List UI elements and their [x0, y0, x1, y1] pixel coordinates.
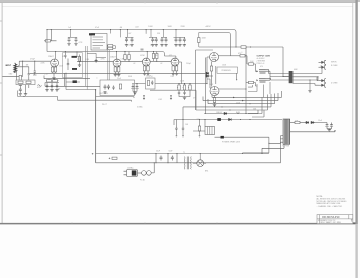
label plus mark — [92, 153, 94, 155]
node rail-R junctions — [46, 29, 51, 41]
wire relay left — [193, 120, 205, 132]
capacitor C fx1 — [104, 85, 107, 90]
transformer T1 mains winding a — [183, 157, 186, 170]
svg-text:.02: .02 — [133, 63, 135, 65]
wire heater out top — [290, 122, 295, 124]
titleblock divider v — [320, 215, 349, 224]
VALUE LABELS — [26, 26, 322, 143]
wire drop x146.1 — [146, 30, 157, 38]
wire corner to T2 — [269, 137, 281, 153]
svg-text:250pF: 250pF — [186, 63, 191, 65]
svg-text:62: 62 — [62, 56, 64, 58]
capacitor C fx2 — [107, 85, 110, 90]
svg-text:22uF: 22uF — [129, 45, 133, 47]
wire drop x110.5 top — [110, 30, 112, 34]
diode feed arrow b — [206, 75, 209, 78]
diode feed arrow a — [206, 72, 209, 75]
capacitor C3b — [130, 38, 133, 47]
divider psu 3 — [176, 154, 178, 163]
ground V1 — [52, 77, 55, 80]
resistor R in midbox — [147, 81, 149, 86]
wire V2 plate — [116, 52, 118, 60]
capacitor C tone1 — [178, 89, 180, 92]
border frame right line — [352, 3, 354, 224]
ground fx — [103, 91, 106, 94]
wire drop x70.6 — [68, 30, 77, 38]
transformer T1 core lines — [187, 157, 188, 170]
node psu dots — [156, 153, 178, 163]
potentiometer low — [178, 84, 180, 85]
diode D6 — [311, 121, 314, 124]
POWER TRANSFORMER T2 — [261, 119, 335, 154]
LEFT HEATER BUSES — [16, 80, 172, 102]
titleblock outline — [317, 215, 353, 224]
svg-text:PRESENCE: PRESENCE — [222, 70, 232, 72]
svg-text:.1: .1 — [96, 78, 97, 80]
diode D3 — [229, 118, 232, 121]
wire V1 plate — [55, 52, 57, 59]
box relay K1 — [205, 127, 215, 135]
plug blades dark — [132, 170, 137, 175]
ground V3a — [145, 71, 148, 73]
transformer T1 output dark core — [289, 71, 293, 83]
wire heater return — [290, 130, 335, 132]
capacitor C5b — [164, 38, 167, 47]
resistor R grid stopper1 — [249, 63, 254, 65]
node fx — [108, 88, 109, 89]
resistor R 1M — [16, 71, 18, 77]
potentiometer high — [189, 84, 191, 85]
capacitor C heater1 — [326, 123, 329, 128]
svg-text:.02: .02 — [160, 63, 162, 65]
resistor R row b — [53, 80, 58, 82]
BIAS / SWITCHING CLUSTER — [174, 97, 282, 154]
resistor R cathode V3a1 — [145, 64, 148, 67]
svg-text:820: 820 — [177, 45, 180, 47]
wire heater bus A — [18, 96, 132, 101]
capacitor C bias2 — [182, 120, 184, 127]
wire plug cord — [138, 172, 142, 174]
wire x28.8 — [17, 67, 29, 88]
ground PI — [214, 103, 216, 104]
resistor R cathode V1b — [54, 67, 56, 72]
wire led — [66, 81, 80, 83]
border frame top line — [0, 2, 356, 4]
svg-text:100K: 100K — [168, 26, 173, 28]
node mains riser — [95, 89, 96, 90]
ground heater l3 — [55, 89, 58, 92]
wire preamp bus long — [30, 72, 206, 74]
ground V3b1 — [173, 71, 176, 73]
resistor R cathode V3a2 — [147, 66, 149, 71]
V2 STAGE — [113, 51, 142, 76]
svg-text:500pF: 500pF — [146, 76, 151, 78]
connector J5 speaker 8ohm b — [319, 65, 327, 69]
svg-text:POWER XFMR 120V: POWER XFMR 120V — [222, 142, 241, 144]
resistor R row l2 — [26, 81, 31, 83]
wire plate V5 — [266, 69, 290, 73]
wire lattice 3 — [208, 94, 275, 104]
wire psu rect top — [96, 153, 269, 155]
wire lattice 4 — [183, 94, 271, 107]
wire V3b plate — [165, 56, 176, 58]
switch SW1 power — [147, 171, 152, 176]
svg-text:100K: 100K — [148, 26, 153, 28]
wire drop x120.3 — [119, 30, 121, 38]
svg-text:PILOT: PILOT — [102, 104, 107, 106]
wire cathode bottom — [17, 76, 26, 87]
INPUT SECTION — [2, 61, 51, 96]
wire lattice 7 — [252, 110, 264, 117]
wire lattice 6 — [248, 110, 258, 114]
wire heater feed left b — [66, 89, 96, 91]
wire psu rect bottom — [96, 142, 281, 163]
resistor R cathode V1a — [51, 67, 53, 72]
capacitor C heater l3 — [56, 83, 58, 85]
POWER TUBES / OT — [248, 47, 322, 97]
wire PI cathode chain — [211, 62, 213, 87]
POWER SUPPLY CHAIN — [45, 86, 281, 169]
ground tone — [179, 90, 190, 97]
resistor R input bold — [14, 68, 17, 73]
svg-text:BR1: BR1 — [205, 171, 208, 173]
node PI — [235, 46, 251, 89]
capacitor C3a — [125, 38, 128, 47]
NOTES TEXT SMALL — [257, 55, 270, 65]
NOTES BLOCK — [317, 196, 348, 208]
resistor R plate PI — [199, 33, 210, 48]
wire tone bus — [135, 83, 208, 85]
wire switch bus pair right — [108, 50, 109, 80]
wire V1 cathode legs — [53, 65, 56, 68]
resistor R cathode V2b — [118, 67, 120, 72]
HEATER/ROUTING LATTICE — [150, 50, 282, 120]
node box1 tap junction — [95, 59, 98, 62]
svg-text:LOW: LOW — [158, 99, 162, 101]
wire cathode to row — [53, 72, 56, 77]
capacitor C psu1 — [160, 156, 163, 161]
resistor R grid1 — [231, 55, 241, 57]
squiggle AC symbol — [38, 85, 42, 87]
wire loop rect gain — [63, 53, 83, 78]
transformer T2 body — [283, 119, 290, 144]
fuse F2 — [295, 121, 300, 123]
resistor Rb — [108, 47, 113, 49]
wire rail left drop R — [44, 30, 57, 52]
resistor R coupling pair — [125, 52, 129, 55]
resistor Ra — [108, 45, 113, 47]
svg-text:25uF: 25uF — [117, 78, 121, 80]
wire bias line1 — [205, 97, 262, 113]
svg-text:□ CHANNEL ONE □ CHAN TWO: □ CHANNEL ONE □ CHAN TWO — [317, 205, 343, 208]
svg-text:INPUT: INPUT — [5, 65, 12, 67]
wire screen bus — [267, 71, 290, 80]
svg-text:+485V: +485V — [205, 26, 211, 28]
svg-text:12AX7: 12AX7 — [48, 55, 54, 58]
svg-text:15uF: 15uF — [318, 120, 322, 122]
capacitor C5a — [160, 38, 163, 47]
resistor R psu small — [112, 157, 117, 159]
resistor R PI tail — [210, 66, 212, 71]
svg-text:.022: .022 — [168, 55, 172, 57]
wire feedback vertical — [245, 47, 247, 114]
wire inner B+ loop — [199, 33, 231, 56]
resistor R on y47 — [241, 46, 246, 48]
ground input b — [25, 83, 27, 93]
tube V6 6L6 bars — [257, 78, 267, 82]
connector J5 speaker 8ohm a — [319, 60, 327, 64]
titleblock divider h — [317, 218, 353, 220]
svg-text:120VAC: 120VAC — [127, 167, 134, 170]
svg-text:PINS 1+8: PINS 1+8 — [257, 63, 265, 65]
ground heater — [327, 127, 332, 130]
border frame left line — [1, 3, 3, 224]
border frame faint inner top line — [2, 6, 353, 8]
wire drop x163.3 — [161, 30, 167, 38]
transformer T2 left pins — [281, 136, 284, 144]
V3b STAGE — [165, 56, 182, 84]
diode D2 dark — [217, 118, 221, 121]
wire lattice 5 — [196, 95, 268, 111]
svg-text:REV C SHEET 1 OF 1 DWG: REV C SHEET 1 OF 1 DWG — [321, 222, 342, 224]
capacitor C4b — [155, 38, 158, 47]
resistor R cathode V3b1 — [173, 64, 176, 67]
svg-text:1N4007: 1N4007 — [216, 112, 222, 114]
resistor R cathode V3b2 — [175, 66, 177, 71]
wire B+ center tap — [283, 47, 289, 77]
svg-text:60W: 60W — [294, 69, 298, 71]
svg-text:2.2M: 2.2M — [85, 59, 89, 61]
node lattice dots — [221, 103, 250, 110]
diode lattice mark b — [242, 100, 244, 102]
resistor R inter pair — [154, 52, 157, 54]
box presence network — [217, 67, 238, 73]
wire bottom row y78.7 — [44, 76, 90, 79]
wire heater mid — [300, 122, 306, 124]
connector J1 input jack — [14, 61, 19, 70]
ground V2a — [114, 72, 116, 74]
resistor dropping — [46, 40, 51, 42]
wire box pins — [107, 46, 116, 49]
wire lattice left drops — [183, 95, 212, 120]
diode D1 — [224, 112, 227, 115]
svg-text:470: 470 — [260, 66, 263, 68]
resistor R PI tail2 — [214, 96, 216, 98]
capacitor C gain — [67, 62, 69, 66]
box U-footswitch legend — [86, 29, 116, 89]
svg-text:.022: .022 — [135, 27, 139, 29]
capacitor C tone2 — [184, 89, 186, 92]
wire loop top a — [196, 49, 214, 51]
svg-text:SCHEMATIC 5150 212: SCHEMATIC 5150 212 — [318, 219, 335, 222]
PHASE INVERTER — [206, 46, 284, 114]
capacitor C 28 — [28, 74, 30, 77]
wire drop from mid rail x77 — [76, 52, 78, 57]
wire to caps — [314, 122, 327, 125]
wire grid V1 — [19, 60, 51, 62]
svg-text:NOTE:: NOTE: — [317, 196, 324, 198]
TITLE BLOCK — [317, 215, 353, 225]
capacitor C above rail — [141, 49, 144, 50]
wire loop vertical left a — [195, 50, 197, 110]
node rail junction dots — [70, 29, 177, 30]
capacitor C heater l2 — [51, 83, 53, 85]
TONE STACK — [132, 78, 208, 99]
capacitor C heater2 — [331, 122, 333, 125]
svg-text:470pF: 470pF — [30, 59, 35, 61]
divider psu 1 — [155, 154, 157, 163]
svg-text:47uF: 47uF — [95, 27, 99, 29]
ground heater l1 — [45, 89, 48, 92]
resistor R bias — [199, 120, 201, 127]
transformer T1 mains winding b — [190, 157, 193, 170]
potentiometer mid — [184, 84, 186, 85]
wire drop x180 — [174, 30, 186, 38]
capacitor C4a — [151, 38, 154, 47]
capacitor C6a — [174, 38, 177, 47]
wire mid rail — [47, 52, 165, 57]
svg-text:6.3VAC: 6.3VAC — [137, 106, 143, 109]
capacitor C in midbox — [151, 81, 153, 85]
wire resistor row left box — [16, 80, 35, 85]
label GAIN dark — [72, 56, 77, 58]
wire V3a plate — [146, 52, 148, 59]
GAIN / STAGE2 COUPLING — [63, 52, 114, 78]
diode LED dark — [73, 80, 77, 83]
wire heater cross — [150, 90, 196, 110]
wire switch bus pair — [86, 46, 88, 90]
wire PI lower out — [219, 88, 246, 90]
wire bus A left end — [17, 91, 19, 97]
box FX loop — [100, 80, 135, 96]
ground input a — [19, 93, 22, 96]
tube V1 12AX7 — [51, 59, 59, 67]
svg-text:T2 PWR: T2 PWR — [282, 146, 290, 148]
resistor R 34 — [34, 61, 36, 71]
resistor R cathode V2a — [115, 65, 118, 68]
svg-text:RETURN: RETURN — [99, 93, 108, 95]
DECOUPLING CLUSTERS — [67, 29, 210, 47]
resistor R fx — [119, 84, 121, 89]
wire T2 secondary left — [262, 144, 284, 153]
wire plate V6 — [266, 78, 290, 80]
svg-text:12AX7: 12AX7 — [110, 55, 116, 58]
wire jack feeds — [317, 77, 319, 81]
right scan edge dark strip — [355, 0, 357, 224]
node tone joins — [132, 83, 190, 84]
ground heater l2 — [50, 89, 53, 92]
label dark small 72 — [72, 68, 77, 70]
wire plug prongs — [124, 171, 127, 175]
capacitor C6b — [178, 38, 181, 47]
svg-text:MEASURED AT 120VAC LINE.: MEASURED AT 120VAC LINE. — [317, 202, 342, 205]
wire heater bus B — [96, 97, 134, 98]
svg-text:OR 300 5A P10: OR 300 5A P10 — [322, 216, 340, 219]
ground OT secondary — [309, 80, 311, 90]
svg-text:8 OHM: 8 OHM — [331, 65, 338, 67]
wire drop x127.5-132.5 — [125, 30, 134, 38]
capacitor C bypass — [19, 88, 22, 93]
wire bias left tail — [173, 120, 175, 126]
svg-text:100K: 100K — [202, 38, 207, 40]
capacitor C 34 — [33, 71, 37, 75]
FX LOOP BOX — [99, 80, 134, 96]
wire heater riser b — [65, 73, 67, 89]
fold tick marks bottom — [72, 222, 290, 225]
diode D5 — [306, 121, 309, 124]
diode D4 dark — [221, 136, 224, 139]
svg-text:.047: .047 — [128, 33, 131, 35]
box switch relay mid — [146, 78, 156, 89]
wire mains riser thick — [95, 90, 97, 163]
wire PI-b grid — [207, 79, 211, 88]
svg-text:50uF: 50uF — [169, 151, 173, 153]
capacitor C psu2 — [171, 156, 174, 161]
svg-text:1uF: 1uF — [68, 27, 71, 29]
capacitor C filter b — [74, 37, 77, 45]
connector J6 speaker 4ohm b — [319, 83, 327, 87]
fuse F1 — [142, 171, 147, 176]
titleblock corner mark — [351, 219, 352, 221]
wire B+ top rail — [47, 30, 236, 47]
tube V3b 12AX7 — [171, 58, 179, 66]
wire V2 out — [121, 60, 142, 62]
connector J6 speaker 4ohm a — [319, 79, 327, 83]
wire heater l bus — [45, 83, 59, 87]
fold tick marks left — [0, 21, 2, 155]
MAINS INPUT — [124, 162, 155, 176]
wire PI out line y47 — [210, 46, 283, 48]
wire V3a out — [150, 60, 171, 62]
wire bias line3 — [215, 136, 269, 138]
resistor R row l1 — [18, 81, 23, 83]
wire jack2 line — [2, 61, 22, 76]
wire PI cathode pair — [215, 66, 217, 84]
tube V2 12AX7 — [113, 59, 121, 67]
capacitor C slope b — [136, 84, 138, 85]
wire lattice risers from tubes — [248, 82, 270, 97]
SPEAKER JACKS — [317, 60, 338, 87]
svg-text:SPKR: SPKR — [331, 62, 337, 64]
capacitor C6c — [183, 38, 186, 47]
wire OT secondary taps — [293, 74, 322, 84]
tube V4a PI — [210, 53, 219, 62]
wire to power rect — [243, 152, 269, 154]
node 66 — [65, 73, 66, 74]
svg-text:220K: 220K — [181, 26, 186, 28]
svg-text:4 OHM: 4 OHM — [331, 83, 338, 85]
wire PI feed stub — [206, 75, 214, 77]
wire PI input — [207, 57, 210, 84]
divider psu 2 — [167, 154, 169, 163]
wire PI out upper — [219, 55, 231, 57]
svg-text:T1: T1 — [183, 152, 185, 154]
label dark footswitch — [89, 33, 95, 35]
svg-text:470K: 470K — [140, 55, 145, 57]
resistor R 68K — [19, 81, 21, 86]
wire switch up — [151, 163, 154, 173]
resistor R grid stopper2 — [246, 82, 249, 84]
capacitor C slope a — [132, 84, 134, 85]
rectifier BR1 bridge — [197, 160, 204, 167]
wire heater feed left a — [45, 85, 100, 87]
node bias dots — [182, 113, 250, 120]
wire V3b out down — [179, 62, 182, 84]
ground gain pot — [78, 64, 81, 67]
heater mark a — [143, 95, 145, 99]
connector P1 AC plug — [127, 170, 138, 177]
ground slope — [133, 90, 137, 92]
